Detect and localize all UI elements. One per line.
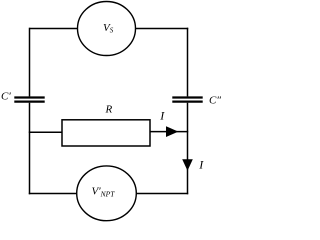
wire resistor left (29, 131, 62, 133)
wire bottom-left (29, 193, 77, 195)
svg-text:C″: C″ (209, 95, 221, 107)
wire top-left horizontal (30, 28, 79, 30)
capacitor C' (14, 98, 44, 102)
wire top-right horizontal (136, 28, 189, 30)
resistor R (62, 120, 150, 146)
voltage source VS (78, 2, 136, 56)
arrow I down (182, 159, 193, 171)
svg-text:I: I (159, 108, 165, 122)
svg-text:V′NPT: V′NPT (92, 186, 116, 199)
wire resistor right (150, 131, 188, 133)
source V'NPT (77, 166, 137, 221)
svg-text:R: R (105, 104, 113, 116)
wire right upper (187, 28, 189, 97)
wire left lower (29, 103, 31, 195)
wire left upper (29, 28, 31, 97)
svg-text:I: I (198, 157, 204, 171)
wire right lower (187, 103, 189, 195)
capacitor C'' (172, 98, 202, 102)
arrow I right (166, 126, 178, 137)
wire bottom-right (136, 193, 188, 195)
svg-text:VS: VS (103, 22, 114, 35)
svg-text:C′: C′ (1, 91, 11, 103)
